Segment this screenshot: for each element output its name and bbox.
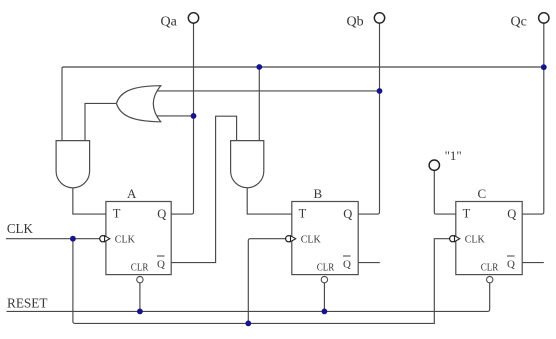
svg-text:T: T xyxy=(463,207,471,221)
svg-text:B: B xyxy=(314,186,323,201)
wire OR lower input from Qa xyxy=(155,115,194,117)
svg-text:Q: Q xyxy=(157,207,166,221)
svg-text:Qb: Qb xyxy=(347,15,364,30)
and-gate U2 xyxy=(56,141,90,188)
svg-text:CLR: CLR xyxy=(481,262,499,274)
terminal Qa xyxy=(188,13,198,23)
flip-flop A box xyxy=(106,202,171,275)
terminal Qc xyxy=(539,13,549,23)
svg-text:CLK: CLK xyxy=(301,233,321,245)
junction CLR B on RESET xyxy=(322,309,328,315)
flip-flop B CLR bubble xyxy=(321,276,327,282)
svg-text:Qc: Qc xyxy=(511,15,527,30)
terminal 1 xyxy=(429,160,439,170)
terminal Qb xyxy=(374,13,384,23)
junction OR input and Qa xyxy=(191,113,197,119)
wire Qc vertical xyxy=(522,23,544,214)
wire top bus Qc net horizontal xyxy=(62,67,544,141)
wire 1 terminal to T of C xyxy=(434,171,456,215)
svg-text:Q: Q xyxy=(507,207,516,221)
wire RESET line xyxy=(7,283,490,312)
wire OR output to AND1 xyxy=(85,103,116,140)
and-gate U3 xyxy=(231,141,264,188)
wire Qa vertical xyxy=(171,23,193,214)
junction Qb bus end xyxy=(377,88,383,94)
svg-text:C: C xyxy=(478,186,487,201)
svg-text:Q: Q xyxy=(343,258,351,270)
flip-flop B Qbar overbar xyxy=(343,255,351,257)
junction top bus and AND2 input xyxy=(256,64,262,70)
svg-text:CLR: CLR xyxy=(317,262,335,274)
svg-text:Q: Q xyxy=(343,207,352,221)
flip-flop B clock bubble and edge triangle xyxy=(286,236,292,242)
svg-text:CLK: CLK xyxy=(115,233,135,245)
wire AND2 right input from top bus xyxy=(258,67,260,141)
svg-text:A: A xyxy=(127,186,137,201)
svg-text:Qa: Qa xyxy=(161,15,178,30)
svg-text:T: T xyxy=(113,207,121,221)
wire CLR A to RESET xyxy=(139,283,141,312)
wire AND2 output to T of B xyxy=(247,188,292,214)
flip-flop A Qbar overbar xyxy=(157,255,165,257)
svg-text:RESET: RESET xyxy=(7,297,48,312)
flip-flop A clock bubble and edge triangle xyxy=(100,236,106,242)
wire CLR B to RESET xyxy=(323,283,325,312)
wire Qb vertical xyxy=(358,23,379,214)
svg-text:CLR: CLR xyxy=(131,262,149,274)
wire Qb bus horizontal xyxy=(155,90,380,92)
flip-flop A CLR bubble xyxy=(137,276,143,282)
svg-text:"1": "1" xyxy=(445,148,462,163)
wire Qbar-C stub xyxy=(522,262,544,264)
svg-text:Q: Q xyxy=(507,258,515,270)
svg-text:CLK: CLK xyxy=(7,221,33,236)
junction CLK line xyxy=(70,236,76,242)
svg-text:CLK: CLK xyxy=(465,233,485,245)
junction B clock riser on rail xyxy=(245,321,251,327)
svg-text:T: T xyxy=(299,207,307,221)
wire Qbar-A hook to AND2 xyxy=(171,116,237,262)
flip-flop C clock bubble and edge triangle xyxy=(450,236,456,242)
wire CLK drop and bottom rail xyxy=(73,239,450,324)
junction CLR A on RESET xyxy=(137,309,143,315)
or-gate U1 xyxy=(116,86,160,122)
svg-text:Q: Q xyxy=(157,258,165,270)
wire B clock riser xyxy=(248,239,285,324)
flip-flop C CLR bubble xyxy=(487,276,493,282)
wire Qbar-B stub xyxy=(358,262,380,264)
flip-flop C Qbar overbar xyxy=(507,255,515,257)
wire AND1 output to T of A xyxy=(73,188,106,214)
junction top bus and Qc xyxy=(541,64,547,70)
flip-flop C box xyxy=(456,202,522,275)
flip-flop B box xyxy=(292,202,358,275)
wire CLK input xyxy=(6,238,100,240)
